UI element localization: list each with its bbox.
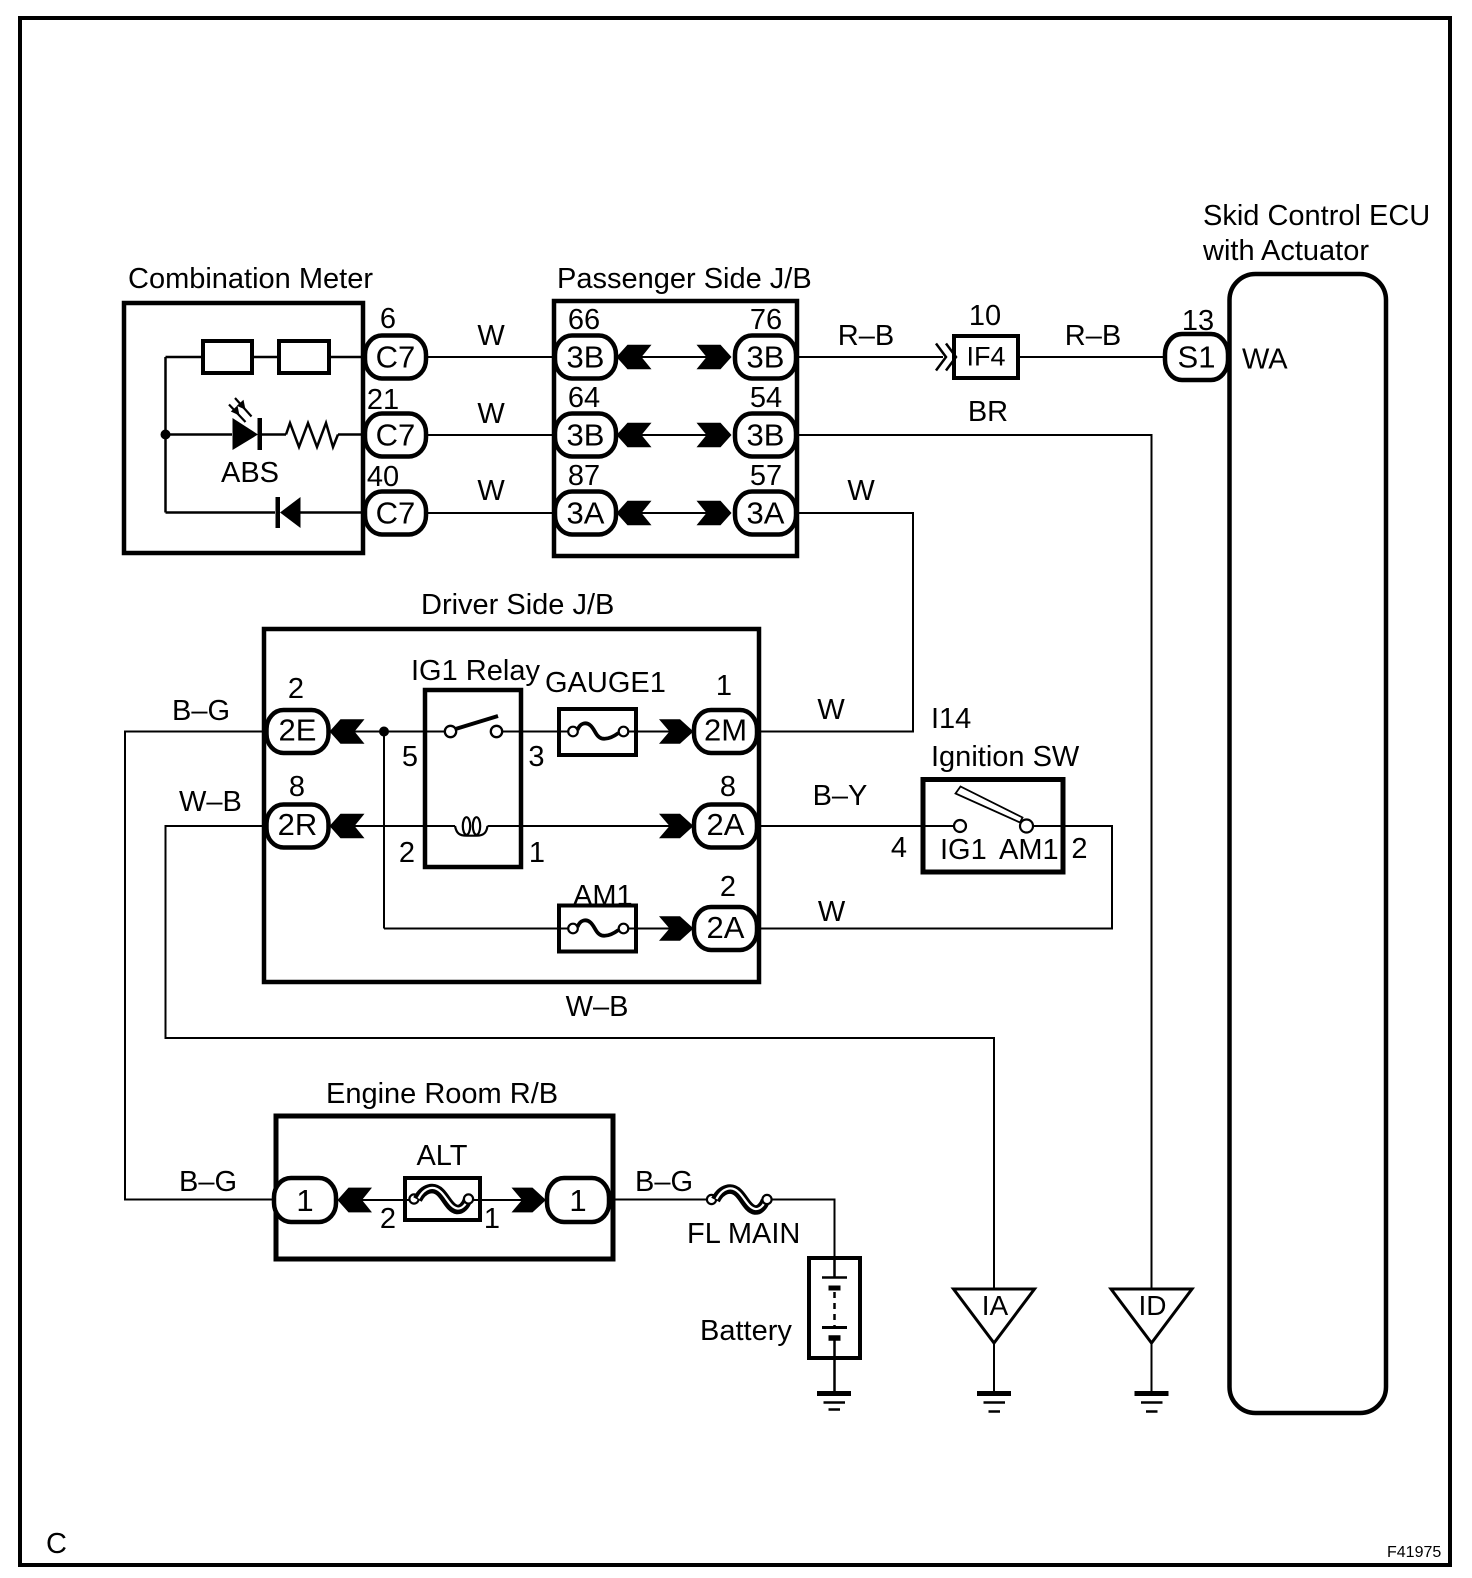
svg-text:W–B: W–B xyxy=(566,991,629,1023)
svg-text:8: 8 xyxy=(720,771,736,803)
svg-text:2: 2 xyxy=(720,871,736,903)
ignition switch I14 box xyxy=(923,780,1063,873)
svg-text:87: 87 xyxy=(568,460,600,492)
svg-text:4: 4 xyxy=(891,832,907,864)
svg-text:IA: IA xyxy=(982,1290,1009,1321)
junction arrow at 2A row2 xyxy=(659,814,694,838)
connector IF4 xyxy=(954,336,1018,378)
connector 1 right xyxy=(547,1178,609,1222)
IG1 relay box xyxy=(425,690,521,867)
svg-text:C7: C7 xyxy=(376,418,416,453)
svg-text:B–Y: B–Y xyxy=(813,780,868,812)
svg-text:F41975: F41975 xyxy=(1387,1544,1441,1561)
svg-text:W: W xyxy=(817,694,845,726)
svg-text:13: 13 xyxy=(1182,305,1214,337)
AM1 fuse box xyxy=(559,906,636,952)
svg-text:Driver Side J/B: Driver Side J/B xyxy=(421,589,614,621)
svg-text:C7: C7 xyxy=(376,496,416,531)
junction arrow at 2A row3 xyxy=(659,916,694,940)
meter internal block 1 xyxy=(203,341,252,373)
wire B-Y 2A to ignition switch xyxy=(757,825,954,827)
junction arrows row2 xyxy=(617,423,652,447)
ALT fusible link element xyxy=(409,1194,418,1203)
svg-text:B–G: B–G xyxy=(635,1166,693,1198)
svg-text:W: W xyxy=(477,398,505,430)
wire ID to ground xyxy=(1151,1343,1153,1392)
wire AM1 fuse to 2A xyxy=(629,928,671,930)
svg-text:B–G: B–G xyxy=(172,695,230,727)
ALT fusible link box xyxy=(405,1178,480,1220)
svg-text:3B: 3B xyxy=(747,340,785,375)
combination meter box xyxy=(124,303,363,553)
svg-text:3A: 3A xyxy=(567,496,605,531)
ignition switch lever xyxy=(956,787,1023,823)
connector 2A pin 2 xyxy=(694,907,757,950)
svg-text:3B: 3B xyxy=(567,418,605,453)
svg-text:BR: BR xyxy=(968,396,1008,428)
wire FL MAIN to battery xyxy=(772,1200,835,1259)
svg-text:W: W xyxy=(477,320,505,352)
connector S1 pin 13 xyxy=(1165,334,1228,380)
svg-text:IG1 Relay: IG1 Relay xyxy=(411,655,540,687)
driver side J/B box xyxy=(264,629,759,982)
junction arrow at 2E xyxy=(330,719,365,743)
wire IA to ground xyxy=(993,1343,995,1392)
connector 3B pin 66 xyxy=(555,336,616,379)
svg-text:1: 1 xyxy=(569,1183,586,1218)
battery xyxy=(809,1258,860,1358)
svg-text:3B: 3B xyxy=(747,418,785,453)
svg-text:S1: S1 xyxy=(1178,340,1216,375)
wire 2E to relay pin5 xyxy=(355,731,446,733)
wire row3 internal xyxy=(166,511,276,514)
svg-text:2R: 2R xyxy=(278,807,318,842)
wire B-G to 2E xyxy=(125,732,274,1200)
svg-text:FL MAIN: FL MAIN xyxy=(687,1218,800,1250)
battery ground xyxy=(817,1391,851,1396)
svg-text:ALT: ALT xyxy=(416,1140,467,1172)
junction arrow right xyxy=(512,1188,547,1213)
svg-text:with Actuator: with Actuator xyxy=(1202,235,1369,267)
svg-text:I14: I14 xyxy=(931,703,971,735)
ground IA triangle xyxy=(954,1289,1035,1343)
connector C7 pin 40 xyxy=(365,492,426,535)
svg-text:1: 1 xyxy=(716,670,732,702)
svg-text:AM1: AM1 xyxy=(999,834,1059,866)
skid control ECU with actuator box xyxy=(1230,274,1387,1413)
LED emission arrows xyxy=(235,398,252,417)
svg-text:3A: 3A xyxy=(747,496,785,531)
connector 2E pin 2 xyxy=(267,710,329,753)
node junction dot xyxy=(379,727,389,737)
wire junction down to AM1 row xyxy=(383,732,385,929)
svg-text:2: 2 xyxy=(288,673,304,705)
junction arrow left xyxy=(338,1188,373,1213)
ignition switch terminal IG1 xyxy=(954,820,966,832)
wire R-B 3B76 to IF4 xyxy=(796,356,943,358)
junction arrow at 2R xyxy=(330,814,365,838)
wire W 3A57 to 2M xyxy=(758,513,913,732)
engine room R/B box xyxy=(276,1116,613,1259)
connector C7 pin 21 xyxy=(365,414,426,457)
svg-text:ABS: ABS xyxy=(221,457,279,489)
svg-text:66: 66 xyxy=(568,304,600,336)
svg-text:AM1: AM1 xyxy=(573,880,633,912)
svg-text:54: 54 xyxy=(750,382,782,414)
GAUGE1 fuse element xyxy=(568,727,578,737)
svg-text:WA: WA xyxy=(1242,344,1288,376)
svg-text:R–B: R–B xyxy=(838,320,894,352)
resistor xyxy=(286,423,338,447)
svg-text:Engine Room R/B: Engine Room R/B xyxy=(326,1078,558,1110)
svg-text:Ignition SW: Ignition SW xyxy=(931,741,1080,773)
passenger side J/B box xyxy=(554,301,797,556)
ENGINE ROOM SECTION xyxy=(179,1078,860,1410)
svg-text:40: 40 xyxy=(367,461,399,493)
GROUNDS SECTION xyxy=(954,1289,1193,1412)
wire row2 internal xyxy=(166,433,233,436)
connector 2A pin 8 xyxy=(694,805,757,848)
connector IF4 chevrons xyxy=(936,344,946,371)
svg-text:Battery: Battery xyxy=(700,1315,792,1347)
svg-text:1: 1 xyxy=(529,837,545,869)
svg-text:1: 1 xyxy=(484,1203,500,1235)
connector 3A pin 87 xyxy=(555,492,616,535)
wire W AM1 to 2A pin2 xyxy=(758,826,1112,929)
COMBINATION METER SECTION xyxy=(124,263,555,553)
svg-text:R–B: R–B xyxy=(1065,320,1121,352)
ground symbol ID xyxy=(1135,1391,1169,1396)
svg-text:Skid Control ECU: Skid Control ECU xyxy=(1203,200,1430,232)
connector 3B pin 54 xyxy=(735,414,796,457)
svg-text:2: 2 xyxy=(1071,833,1087,865)
connector 2M pin 1 xyxy=(694,710,757,753)
wire coil to 2A arrow xyxy=(488,825,671,827)
connector 1 left xyxy=(274,1178,336,1222)
svg-text:W–B: W–B xyxy=(179,786,242,818)
wire arrow to ALT xyxy=(362,1199,410,1201)
svg-text:Combination Meter: Combination Meter xyxy=(128,263,373,295)
svg-text:2: 2 xyxy=(380,1203,396,1235)
ground ID triangle xyxy=(1111,1289,1192,1343)
wire 2R to relay coil pin2 xyxy=(355,825,456,827)
svg-text:1: 1 xyxy=(296,1183,313,1218)
wire W row1 C7 to 3B66 xyxy=(426,356,555,358)
wire row1 internal xyxy=(166,356,204,359)
connector 3B pin 76 xyxy=(735,336,796,379)
svg-text:IF4: IF4 xyxy=(966,342,1005,372)
svg-text:6: 6 xyxy=(380,303,396,335)
ignition switch terminal AM1 xyxy=(1020,820,1033,833)
svg-text:W: W xyxy=(847,475,875,507)
ABS warning LED xyxy=(233,418,259,450)
svg-text:3: 3 xyxy=(528,741,544,773)
svg-text:C: C xyxy=(46,1528,67,1560)
svg-text:10: 10 xyxy=(969,300,1001,332)
ground symbol IA xyxy=(977,1391,1011,1396)
connector 3B pin 64 xyxy=(555,414,616,457)
svg-text:64: 64 xyxy=(568,382,600,414)
junction arrows row1 xyxy=(617,345,652,369)
svg-text:5: 5 xyxy=(402,741,418,773)
wire switch to GAUGE1 fuse xyxy=(502,731,568,733)
svg-text:Passenger Side J/B: Passenger Side J/B xyxy=(557,263,812,295)
PASSENGER JB SECTION xyxy=(554,263,812,556)
wire BR 3B54 to ID ground xyxy=(796,435,1152,1288)
svg-text:GAUGE1: GAUGE1 xyxy=(545,667,666,699)
junction arrows row3 xyxy=(617,501,652,525)
svg-text:21: 21 xyxy=(367,384,399,416)
junction arrow at 2M xyxy=(659,719,694,743)
meter internal block 2 xyxy=(279,341,329,373)
relay switch contacts xyxy=(445,726,456,737)
svg-text:2M: 2M xyxy=(704,713,747,748)
wire GAUGE1 to 2M xyxy=(629,731,671,733)
wire ALT to arrow xyxy=(473,1199,522,1201)
DRIVER JB SECTION xyxy=(125,589,994,1288)
relay switch lever xyxy=(456,716,499,729)
AM1 fuse element xyxy=(568,924,578,934)
FL MAIN fusible link xyxy=(707,1195,716,1204)
diode D1 xyxy=(276,497,281,528)
GAUGE1 fuse box xyxy=(559,709,636,755)
relay coil xyxy=(455,826,488,836)
connector 3A pin 57 xyxy=(735,492,796,535)
IGNITION SECTION xyxy=(757,703,1112,929)
svg-text:76: 76 xyxy=(750,304,782,336)
wire R-B IF4 to S1 xyxy=(1020,356,1165,358)
wire W-B to 2R xyxy=(166,826,995,1288)
wire junction to AM1 fuse xyxy=(384,928,568,930)
svg-text:W: W xyxy=(477,475,505,507)
connector C7 pin 6 xyxy=(365,336,426,379)
svg-text:IG1: IG1 xyxy=(940,834,987,866)
svg-text:3B: 3B xyxy=(567,340,605,375)
svg-text:2E: 2E xyxy=(279,713,317,748)
wire B-G to FL MAIN xyxy=(609,1199,707,1201)
CORNER TEXT xyxy=(46,1528,1441,1561)
svg-text:8: 8 xyxy=(289,771,305,803)
svg-text:2A: 2A xyxy=(707,910,745,945)
svg-text:C7: C7 xyxy=(376,340,416,375)
svg-text:W: W xyxy=(818,896,846,928)
connector 2R pin 8 xyxy=(267,805,329,848)
wire W row2 C7 to 3B64 xyxy=(426,434,555,436)
svg-text:2: 2 xyxy=(399,837,415,869)
wire W row3 C7 to 3A87 xyxy=(426,512,555,514)
node junction dot row2 xyxy=(161,430,171,440)
svg-text:2A: 2A xyxy=(707,807,745,842)
svg-text:B–G: B–G xyxy=(179,1166,237,1198)
svg-text:ID: ID xyxy=(1139,1290,1167,1321)
RIGHT SIDE SECTION xyxy=(758,200,1430,1413)
svg-text:57: 57 xyxy=(750,460,782,492)
wire internal left bus xyxy=(164,357,167,513)
